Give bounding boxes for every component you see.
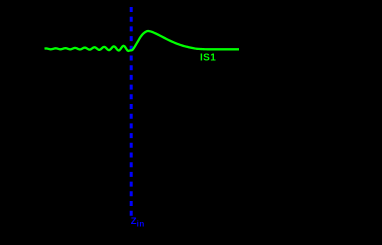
- boundary line Z_in (blue dashed vertical): [130, 7, 133, 216]
- waveform trace IS1: [45, 31, 240, 51]
- svg-text:IS1: IS1: [200, 53, 216, 64]
